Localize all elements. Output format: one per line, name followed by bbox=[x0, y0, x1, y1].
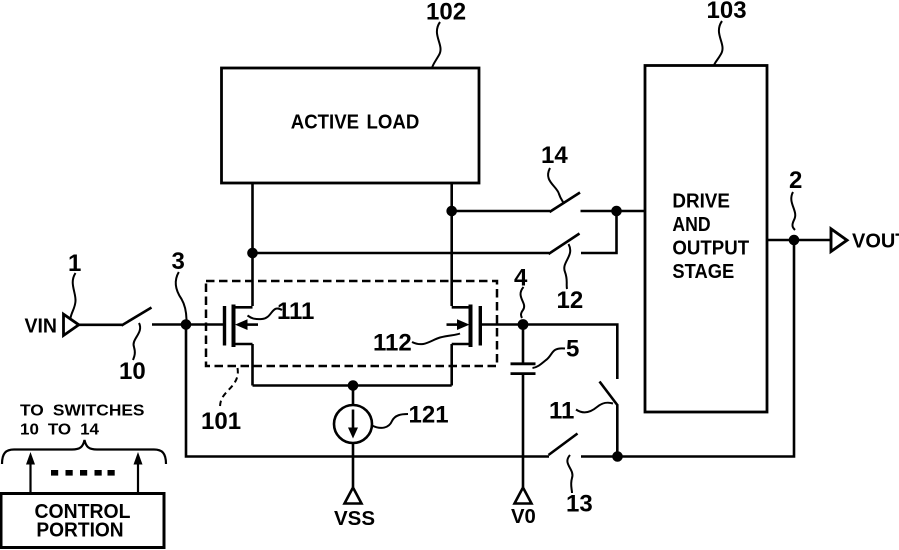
svg-text:STAGE: STAGE bbox=[672, 261, 734, 283]
node 4 bbox=[519, 320, 527, 328]
control portion section bbox=[1, 403, 166, 548]
leader 5 bbox=[533, 348, 566, 368]
drive and output stage box 103 bbox=[645, 66, 767, 413]
svg-text:VOUT: VOUT bbox=[852, 231, 899, 253]
leader 13 bbox=[567, 455, 572, 493]
svg-text:11: 11 bbox=[549, 398, 574, 425]
svg-text:OUTPUT: OUTPUT bbox=[672, 238, 749, 260]
current source 121 bbox=[334, 386, 372, 488]
leader 101 (dashed) bbox=[220, 368, 238, 407]
svg-text:10: 10 bbox=[119, 358, 146, 385]
node: tail junction bbox=[349, 382, 357, 390]
leader 102 bbox=[432, 22, 441, 68]
svg-text:3: 3 bbox=[172, 248, 185, 275]
control portion box bbox=[1, 494, 164, 548]
svg-text:DRIVE: DRIVE bbox=[672, 191, 730, 213]
wire: switch-11 bottom to bottom rail bbox=[616, 405, 619, 457]
svg-text:V0: V0 bbox=[511, 506, 536, 528]
wire: source of 112 down to tail bbox=[450, 344, 453, 386]
ground VSS bbox=[345, 488, 362, 504]
input VIN triangle bbox=[64, 314, 79, 335]
leader 14 bbox=[548, 168, 564, 204]
transistor Q111 bbox=[225, 305, 259, 348]
dashed box 101 around differential pair bbox=[206, 281, 497, 366]
wire: source of 111 down to tail bbox=[251, 344, 254, 386]
svg-text:101: 101 bbox=[201, 408, 241, 435]
output VOUT triangle bbox=[831, 229, 847, 252]
node 2 bbox=[790, 236, 798, 244]
label DRIVE AND OUTPUT STAGE bbox=[672, 191, 749, 284]
label CONTROL PORTION bbox=[35, 501, 131, 542]
svg-text:VIN: VIN bbox=[25, 316, 58, 338]
wire: left drain from active load down to transistor 111 bbox=[251, 183, 254, 306]
svg-text:13: 13 bbox=[566, 491, 593, 518]
switch 12 blade bbox=[549, 234, 580, 255]
wire: right drain from active load down to transistor 112 bbox=[450, 183, 453, 306]
switch 13 blade bbox=[549, 434, 578, 456]
leader 10 bbox=[133, 323, 140, 360]
svg-text:14: 14 bbox=[541, 142, 568, 169]
wire: switch-14 branch from right drain node to drive stage bbox=[452, 210, 550, 213]
svg-text:102: 102 bbox=[426, 0, 466, 26]
leader 2 bbox=[791, 192, 795, 230]
svg-text:2: 2 bbox=[789, 167, 802, 194]
node: junction before drive stage bbox=[613, 207, 621, 215]
wire: gate of 112 to node 4 bbox=[482, 323, 523, 326]
svg-text:5: 5 bbox=[566, 336, 579, 363]
node: bottom rail junction bbox=[614, 453, 622, 461]
node 3 bbox=[182, 321, 190, 329]
switch 10 blade bbox=[122, 308, 152, 326]
leader 121 bbox=[372, 414, 408, 428]
svg-text:PORTION: PORTION bbox=[36, 520, 123, 542]
wire: VIN to switch 10 bbox=[79, 323, 123, 326]
svg-text:ACTIVE LOAD: ACTIVE LOAD bbox=[291, 111, 420, 133]
node: right drain / switch-14 tap bbox=[448, 207, 456, 215]
leader 11 bbox=[576, 403, 613, 413]
node: left drain / switch-12 tap bbox=[249, 249, 257, 257]
svg-text:4: 4 bbox=[514, 265, 528, 292]
dotted control bus bbox=[51, 470, 115, 476]
switch 14 blade bbox=[550, 193, 581, 213]
label TO SWITCHES 10 TO 14 bbox=[20, 403, 145, 439]
wire: node3 drop and bottom rail to switch 13 bbox=[186, 325, 549, 457]
wire: switch-12 branch from left drain node bbox=[253, 252, 550, 255]
svg-text:12: 12 bbox=[557, 287, 584, 314]
reference numerals and leader lines bbox=[68, 0, 802, 518]
svg-text:121: 121 bbox=[409, 402, 449, 429]
wire: bottom rail right segment and feedback riser bbox=[581, 240, 794, 457]
capacitor C5 bbox=[511, 325, 536, 488]
svg-text:AND: AND bbox=[672, 214, 710, 236]
wire: jog from node down to switch-12 wire bbox=[581, 211, 617, 253]
active load box 102 bbox=[222, 68, 480, 183]
wire: switch-14 right segment into drive box bbox=[581, 210, 646, 213]
leader 3 bbox=[176, 272, 187, 320]
svg-text:VSS: VSS bbox=[334, 508, 375, 530]
wire: source coupling tail bbox=[253, 384, 452, 387]
wire: switch-10 right segment to gate of 111 bbox=[152, 323, 223, 326]
wire: node4 to switch 11 bbox=[523, 325, 617, 380]
svg-text:111: 111 bbox=[277, 298, 314, 325]
svg-text:10 TO 14: 10 TO 14 bbox=[20, 422, 99, 439]
svg-text:112: 112 bbox=[373, 330, 412, 357]
leader 12 bbox=[564, 244, 570, 289]
leader 4 bbox=[521, 287, 525, 318]
control arrow left bbox=[26, 452, 35, 493]
transistor Q112 bbox=[447, 305, 481, 348]
wire: output of drive stage bbox=[767, 239, 831, 242]
leader 111 bbox=[248, 309, 283, 320]
leader 112 bbox=[412, 334, 460, 345]
leader 1 bbox=[71, 273, 76, 318]
leader 103 bbox=[714, 21, 723, 66]
svg-text:103: 103 bbox=[707, 0, 747, 24]
switch 11 blade bbox=[600, 382, 618, 406]
ground V0 bbox=[515, 488, 532, 504]
svg-text:TO SWITCHES: TO SWITCHES bbox=[20, 403, 145, 420]
brace over control arrows bbox=[2, 440, 166, 464]
control arrow right bbox=[134, 452, 143, 493]
